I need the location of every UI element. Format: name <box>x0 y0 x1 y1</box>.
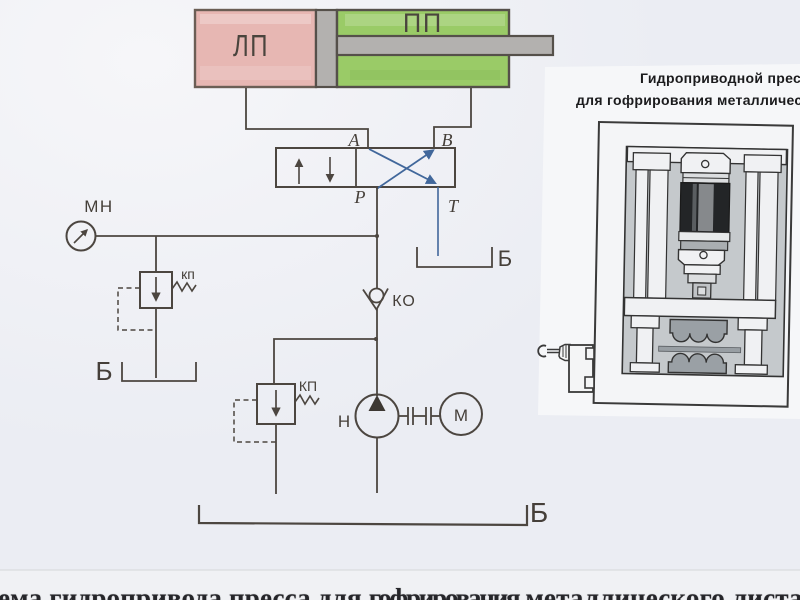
inset white panel <box>538 64 800 419</box>
svg-text:М: М <box>454 406 468 425</box>
valve down arrow <box>329 157 331 181</box>
wire cylinder port A <box>246 88 368 148</box>
press upper die <box>670 319 727 342</box>
press cylinder flange bottom <box>679 232 730 242</box>
press moving platen <box>624 298 775 319</box>
press top beam <box>627 147 786 165</box>
press foot right <box>735 365 767 375</box>
cylinder right chamber ПП <box>337 10 509 87</box>
pressure gauge МН <box>67 222 96 251</box>
press column right inner <box>744 172 758 300</box>
label Н <box>338 412 350 431</box>
press guide block left <box>631 316 659 329</box>
inset title line 1 <box>640 70 800 86</box>
svg-text:P: P <box>354 187 366 207</box>
press cylinder flange top <box>683 173 729 184</box>
inset title line 2 <box>576 92 800 108</box>
press cylinder top cap <box>681 153 730 174</box>
svg-text:Б: Б <box>498 246 512 271</box>
press lower column right <box>744 330 762 365</box>
wire T drain blue <box>437 187 439 256</box>
press foot left <box>630 363 659 373</box>
label кп (КП1) <box>181 266 195 282</box>
label Б bottom tank <box>530 497 548 528</box>
wire КП1 to tank <box>155 308 157 378</box>
press column left inner <box>648 170 668 298</box>
inset press drawing <box>594 122 793 407</box>
label port A <box>348 130 361 150</box>
press column top nut right <box>744 155 781 173</box>
pump Н <box>356 395 399 438</box>
pilot dashed line КП2 <box>234 400 276 442</box>
svg-text:Б: Б <box>95 356 112 386</box>
press lower column left <box>636 328 653 363</box>
press lower die <box>668 353 726 373</box>
cylinder left chamber ЛП <box>195 10 316 87</box>
svg-text:ЛП: ЛП <box>233 28 269 63</box>
tank Б right of valve <box>417 247 492 267</box>
spring КП1 <box>172 282 196 291</box>
press gray panel <box>622 147 787 377</box>
label Б right tank <box>498 246 512 271</box>
press guide block right <box>738 318 767 331</box>
svg-text:ПП: ПП <box>403 8 443 38</box>
junction node P-gauge <box>375 234 379 238</box>
label ЛП <box>233 28 269 63</box>
press hand pump lever <box>538 345 594 393</box>
wire P pressure line <box>376 187 378 396</box>
pilot dashed line КП1 <box>118 288 156 330</box>
press cylinder body <box>680 183 730 233</box>
valve blue arrow A to T <box>369 149 435 183</box>
spring КП2 <box>295 395 319 404</box>
label Б left tank <box>95 356 112 386</box>
svg-text:Б: Б <box>530 497 548 528</box>
motor М <box>440 393 482 435</box>
wire pump to tank <box>376 438 378 493</box>
label port T <box>448 196 460 216</box>
wire cylinder port B <box>434 88 471 148</box>
press sheet <box>659 346 741 353</box>
piston rod <box>337 36 553 55</box>
svg-text:КО: КО <box>392 293 416 310</box>
coupling pump-motor <box>399 407 441 425</box>
wire КП2 to tank <box>275 424 277 494</box>
press rod step 2 <box>688 274 716 284</box>
label КО <box>392 293 416 310</box>
check valve КО <box>363 289 388 310</box>
cylinder piston <box>316 10 337 87</box>
press frame <box>594 122 793 407</box>
valve blue arrow P to B <box>377 151 434 190</box>
tank Б bottom <box>199 505 527 525</box>
label МН <box>84 197 113 216</box>
wire to relief valve КП1 <box>155 236 157 272</box>
tank Б left <box>122 362 196 381</box>
valve up arrow <box>298 160 300 184</box>
svg-text:МН: МН <box>84 197 113 216</box>
svg-text:кп: кп <box>181 266 195 282</box>
relief valve КП1 body <box>140 272 172 308</box>
press cylinder bottom cap <box>678 250 724 266</box>
press column top nut left <box>633 153 670 171</box>
wire gauge line <box>96 235 377 237</box>
press column left outer <box>634 170 648 298</box>
press rod step 1 <box>684 265 720 275</box>
svg-text:КП: КП <box>299 378 317 394</box>
svg-text:Н: Н <box>338 412 350 431</box>
label М <box>454 406 468 425</box>
label port B <box>442 130 453 150</box>
press rod holder <box>693 283 711 298</box>
label КП (КП2) <box>299 378 317 394</box>
label port P <box>354 187 366 207</box>
bottom caption <box>0 583 800 600</box>
press column right outer <box>758 172 778 300</box>
relief valve КП2 body <box>257 384 295 424</box>
junction node branch <box>374 337 378 341</box>
wire branch to КП2 <box>274 339 376 384</box>
label ПП <box>403 8 443 38</box>
directional valve body <box>276 148 455 187</box>
